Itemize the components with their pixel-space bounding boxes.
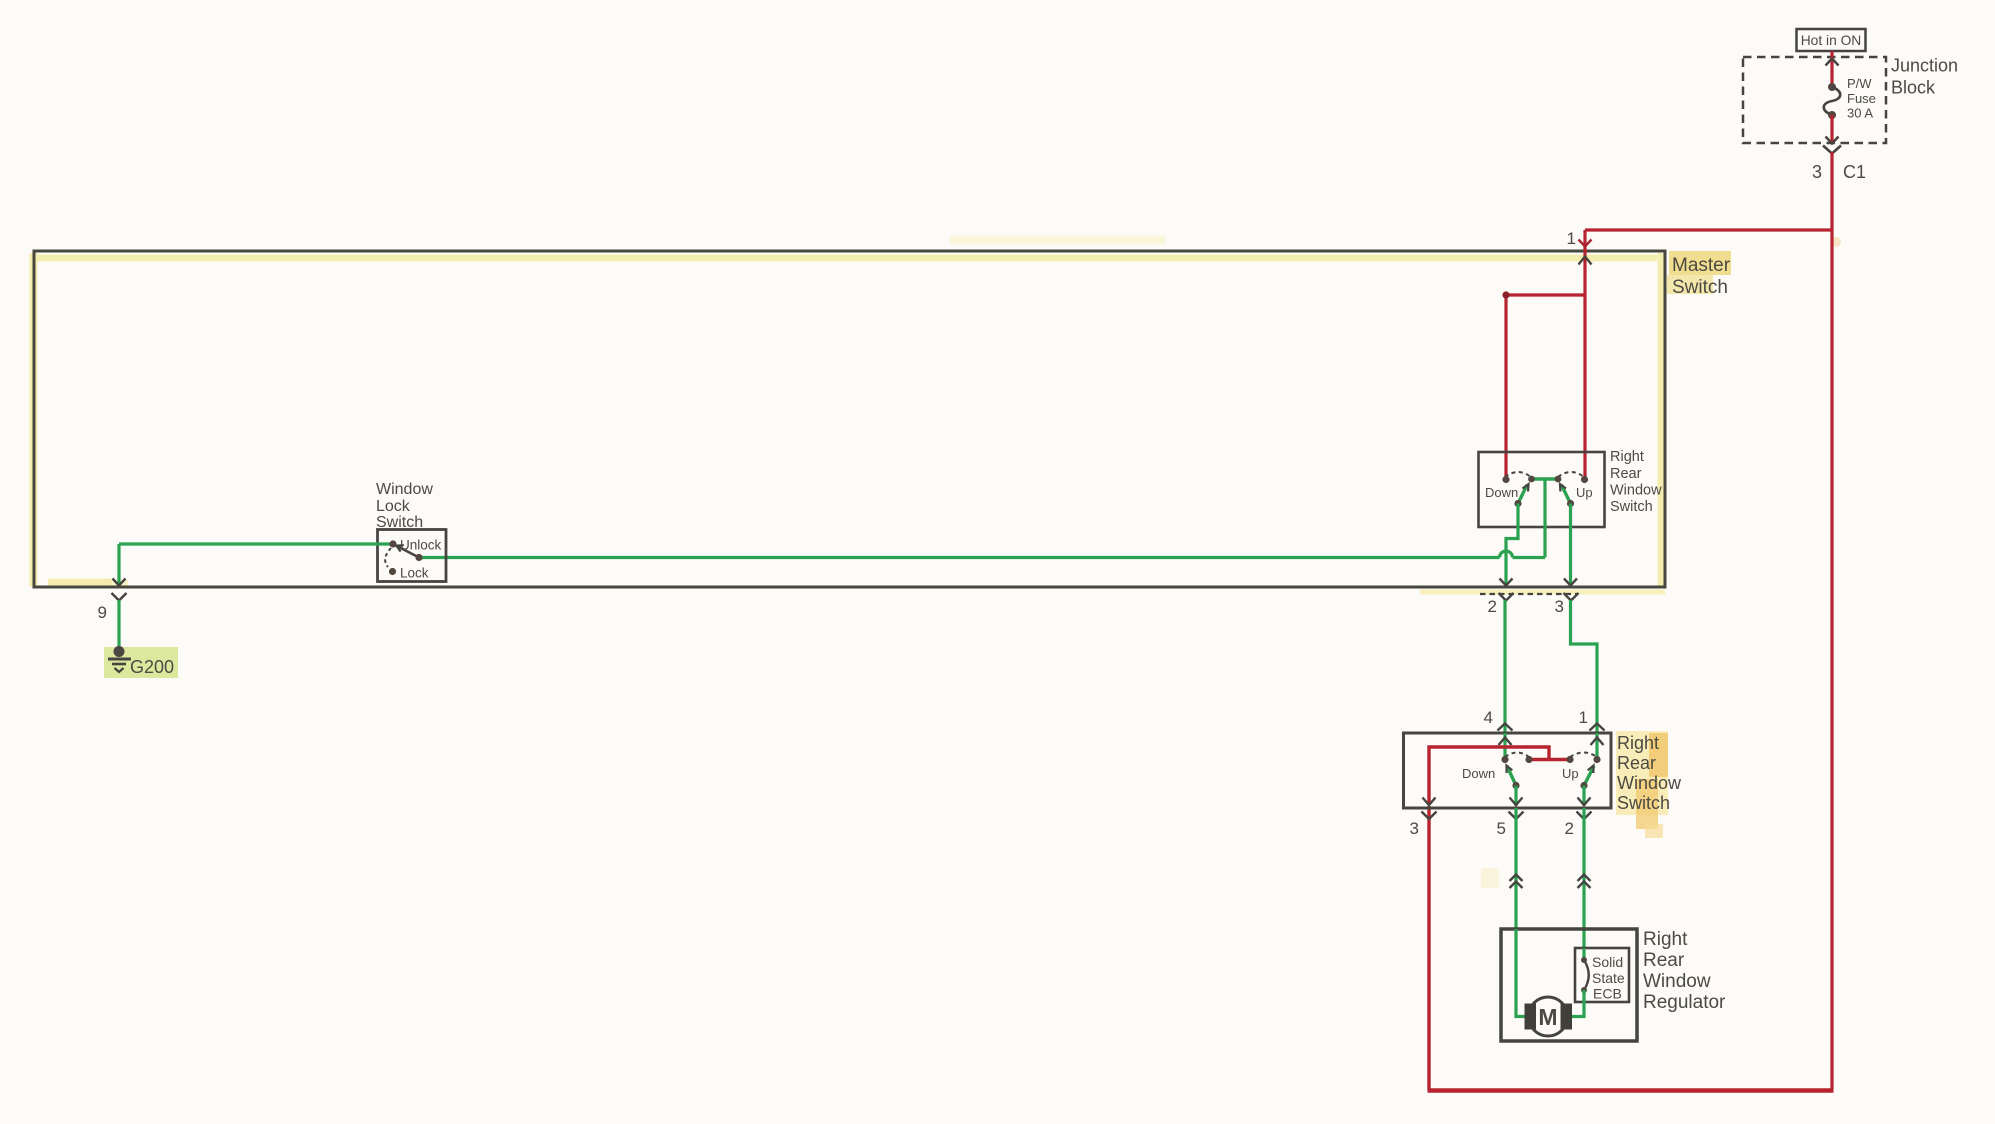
svg-text:G200: G200 bbox=[130, 657, 174, 677]
svg-text:3: 3 bbox=[1410, 819, 1419, 838]
svg-text:Up: Up bbox=[1576, 485, 1593, 500]
svg-text:Up: Up bbox=[1562, 766, 1579, 781]
svg-text:Down: Down bbox=[1462, 766, 1495, 781]
svg-text:9: 9 bbox=[98, 603, 107, 622]
svg-text:Right: Right bbox=[1617, 733, 1659, 753]
svg-text:Block: Block bbox=[1891, 78, 1936, 98]
svg-text:Right: Right bbox=[1643, 929, 1688, 950]
svg-text:Hot in ON: Hot in ON bbox=[1801, 33, 1862, 48]
svg-text:Junction: Junction bbox=[1891, 56, 1958, 76]
svg-text:P/W: P/W bbox=[1847, 76, 1872, 91]
svg-text:Right: Right bbox=[1610, 449, 1644, 465]
svg-text:Master: Master bbox=[1672, 255, 1731, 276]
svg-text:Lock: Lock bbox=[376, 498, 411, 515]
svg-text:Switch: Switch bbox=[1610, 499, 1653, 515]
svg-text:ECB: ECB bbox=[1593, 986, 1622, 1002]
svg-text:1: 1 bbox=[1579, 708, 1588, 727]
svg-text:State: State bbox=[1592, 970, 1625, 986]
svg-text:Switch: Switch bbox=[1617, 793, 1670, 813]
svg-text:Lock: Lock bbox=[400, 566, 429, 581]
svg-text:Down: Down bbox=[1485, 485, 1518, 500]
svg-text:2: 2 bbox=[1488, 597, 1497, 616]
svg-text:1: 1 bbox=[1567, 229, 1576, 248]
svg-text:Switch: Switch bbox=[1672, 277, 1728, 298]
svg-text:2: 2 bbox=[1565, 819, 1574, 838]
svg-text:Window: Window bbox=[376, 481, 433, 498]
svg-text:Window: Window bbox=[1617, 773, 1682, 793]
svg-text:Regulator: Regulator bbox=[1643, 992, 1726, 1013]
svg-text:3: 3 bbox=[1812, 162, 1822, 182]
svg-text:Rear: Rear bbox=[1643, 950, 1685, 971]
svg-text:M: M bbox=[1538, 1004, 1557, 1030]
svg-text:30 A: 30 A bbox=[1847, 106, 1873, 121]
svg-text:Solid: Solid bbox=[1592, 954, 1623, 970]
svg-text:Rear: Rear bbox=[1610, 466, 1642, 482]
svg-text:3: 3 bbox=[1555, 597, 1564, 616]
svg-text:Rear: Rear bbox=[1617, 753, 1656, 773]
svg-text:Fuse: Fuse bbox=[1847, 91, 1876, 106]
svg-text:Window: Window bbox=[1610, 483, 1662, 499]
svg-text:4: 4 bbox=[1484, 708, 1493, 727]
svg-text:5: 5 bbox=[1497, 819, 1506, 838]
svg-text:Window: Window bbox=[1643, 971, 1711, 992]
svg-text:C1: C1 bbox=[1843, 162, 1866, 182]
